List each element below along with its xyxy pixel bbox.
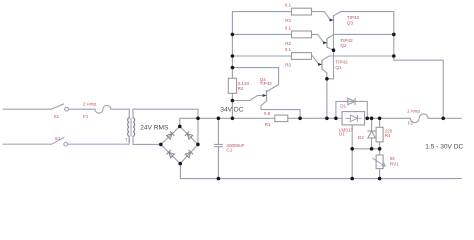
resistor R4 220 box: [376, 127, 383, 142]
resistor R3 row3 box: [292, 53, 312, 60]
junction dot rail x198: [196, 117, 200, 121]
row3 emitter wire right: [329, 55, 394, 57]
svg-text:F2: F2: [408, 120, 414, 125]
junction dot ground adj: [350, 177, 354, 181]
svg-text:TIP42: TIP42: [335, 59, 348, 64]
wire LM317 output: [365, 117, 411, 119]
junction dot R4 top: [378, 117, 382, 121]
junction dot bus to rail: [231, 117, 235, 121]
resistor R2 row2 box: [292, 31, 312, 38]
regulator U1 internal diode: [346, 115, 362, 122]
svg-text:F1: F1: [83, 114, 89, 119]
svg-text:Q3: Q3: [347, 20, 354, 25]
svg-text:5k: 5k: [390, 156, 396, 161]
junction dot collector bus Q1: [325, 77, 329, 81]
transistor Q3: [330, 12, 341, 51]
svg-text:R2: R2: [285, 41, 291, 46]
junction dot collector bus Q2: [332, 48, 336, 52]
junction dot left bus row3: [231, 54, 235, 58]
transistor Q4: [261, 90, 267, 109]
wire C1 to ground rail: [217, 147, 219, 179]
junction dot right bus row2: [392, 33, 396, 37]
junction dot output F2: [441, 117, 445, 121]
wire primary bottom to switch: [68, 136, 129, 144]
svg-text:S1: S1: [55, 136, 61, 141]
junction dot R4 bottom: [378, 147, 382, 151]
wire fuse to transformer primary: [128, 109, 130, 117]
switch S1b: [52, 138, 68, 147]
svg-text:0.1: 0.1: [285, 3, 292, 8]
junction dot left bus Q4 branch: [231, 66, 235, 70]
svg-text:C1: C1: [226, 147, 232, 152]
collector bus: [327, 50, 334, 118]
wire bridge south to ground rail: [179, 164, 181, 179]
svg-text:RV1: RV1: [390, 162, 399, 167]
wire RV1 to ground: [379, 169, 381, 179]
junction dot D2 bottom: [370, 147, 374, 151]
row2 wire to Q2 base: [312, 34, 327, 42]
svg-text:0.1: 0.1: [285, 47, 292, 52]
wire R4 bottom: [379, 142, 381, 155]
adj line: [352, 148, 379, 150]
transformer T1 core: [131, 118, 132, 136]
svg-text:24V RMS: 24V RMS: [140, 124, 169, 131]
svg-text:Q2: Q2: [340, 43, 347, 48]
row1 wire left: [232, 11, 291, 13]
row2 wire left: [232, 33, 291, 35]
wire output: [443, 117, 461, 119]
svg-text:TIP42: TIP42: [347, 15, 360, 20]
svg-text:1.5 - 30V DC: 1.5 - 30V DC: [425, 144, 463, 151]
wire R1 to LM317: [288, 117, 342, 119]
diode D2: [368, 118, 376, 149]
row2 emitter wire right: [334, 33, 394, 35]
junction dot ground RV1: [378, 177, 382, 181]
svg-text:R3: R3: [285, 62, 291, 67]
wire Q4 emitter loop over R1: [261, 110, 300, 119]
svg-text:R4: R4: [385, 133, 391, 138]
wire secondary top to bridge: [133, 109, 198, 144]
junction dot adj corner: [350, 147, 354, 151]
junction dot bridge west: [159, 143, 163, 147]
bridge diode NE: [180, 126, 198, 144]
diode D1 loop: [336, 101, 367, 118]
junction dot bridge south: [178, 162, 182, 166]
junction dot D2 top: [370, 117, 374, 121]
transistor Q2: [323, 34, 334, 50]
junction dot Q4 base: [231, 99, 235, 103]
svg-text:TIP42: TIP42: [340, 38, 353, 43]
fuse F1: [95, 105, 129, 113]
resistor R3 row1 box: [292, 8, 312, 15]
svg-text:0.1: 0.1: [285, 25, 292, 30]
svg-text:0.8: 0.8: [264, 111, 271, 116]
wire C1 branch: [217, 118, 219, 144]
wire secondary bottom to bridge west: [133, 136, 161, 144]
row1 emitter wire right: [341, 11, 394, 13]
right emitter bus: [394, 12, 443, 119]
ground rail: [180, 178, 461, 180]
junction dot left bus row2: [231, 33, 235, 37]
wire rail to R4 top: [379, 118, 381, 127]
row3 wire to Q1 base: [312, 56, 322, 64]
junction dot bridge east: [196, 143, 200, 147]
svg-text:Q1: Q1: [335, 65, 342, 70]
transistor Q1: [318, 56, 329, 79]
resistor R4 0.133 box: [228, 78, 236, 93]
wire bridge north to positive rail: [180, 118, 198, 126]
junction dot D1 loop left: [334, 117, 338, 121]
svg-text:R4: R4: [238, 86, 244, 91]
junction dot bridge north: [178, 125, 182, 129]
svg-text:TIP42: TIP42: [260, 81, 273, 86]
resistor R1 box: [275, 115, 288, 122]
capacitor C1 plates: [214, 144, 222, 146]
svg-text:U1: U1: [339, 132, 345, 137]
bridge diode NW: [161, 126, 180, 144]
bridge diode SW: [161, 144, 180, 163]
wire positive rail 34V: [198, 117, 275, 119]
regulator U1 LM317 box: [342, 112, 365, 125]
svg-text:2 Amp: 2 Amp: [83, 101, 96, 106]
row3 wire left: [232, 55, 291, 57]
transformer T1 primary winding: [128, 118, 130, 137]
wire Q4 collector branch: [232, 68, 278, 92]
junction dot collector bus rail: [325, 117, 329, 121]
svg-text:R3: R3: [285, 18, 291, 23]
wire LM317 adj pin: [351, 125, 353, 149]
svg-text:R1: R1: [265, 122, 271, 127]
junction dot D1 loop right: [366, 117, 370, 121]
wire mains neutral bottom: [3, 143, 52, 145]
bridge diode SE: [180, 144, 198, 163]
svg-text:0.133: 0.133: [238, 81, 250, 86]
junction dot right bus row3: [392, 54, 396, 58]
diode D1: [348, 98, 355, 104]
svg-text:S1: S1: [54, 114, 60, 119]
junction dot R1 right: [298, 117, 302, 121]
wire adj to ground: [351, 149, 353, 179]
left base bus vertical: [231, 12, 233, 119]
potentiometer RV1 box: [373, 155, 386, 169]
fuse F2: [410, 114, 443, 123]
switch S1a: [51, 104, 95, 111]
svg-text:T1: T1: [125, 137, 131, 142]
row1 wire to Q3 base: [312, 12, 333, 20]
svg-text:D2: D2: [358, 135, 364, 140]
junction dot C1 branch: [217, 117, 221, 121]
svg-text:1 Amp: 1 Amp: [407, 109, 420, 114]
wire Q4 base: [232, 96, 262, 101]
transformer T1 secondary winding: [133, 118, 135, 137]
wire mains live top: [3, 108, 51, 110]
junction dot ground C1: [217, 177, 221, 181]
svg-text:D1: D1: [340, 104, 346, 109]
svg-text:34V DC: 34V DC: [220, 107, 243, 114]
